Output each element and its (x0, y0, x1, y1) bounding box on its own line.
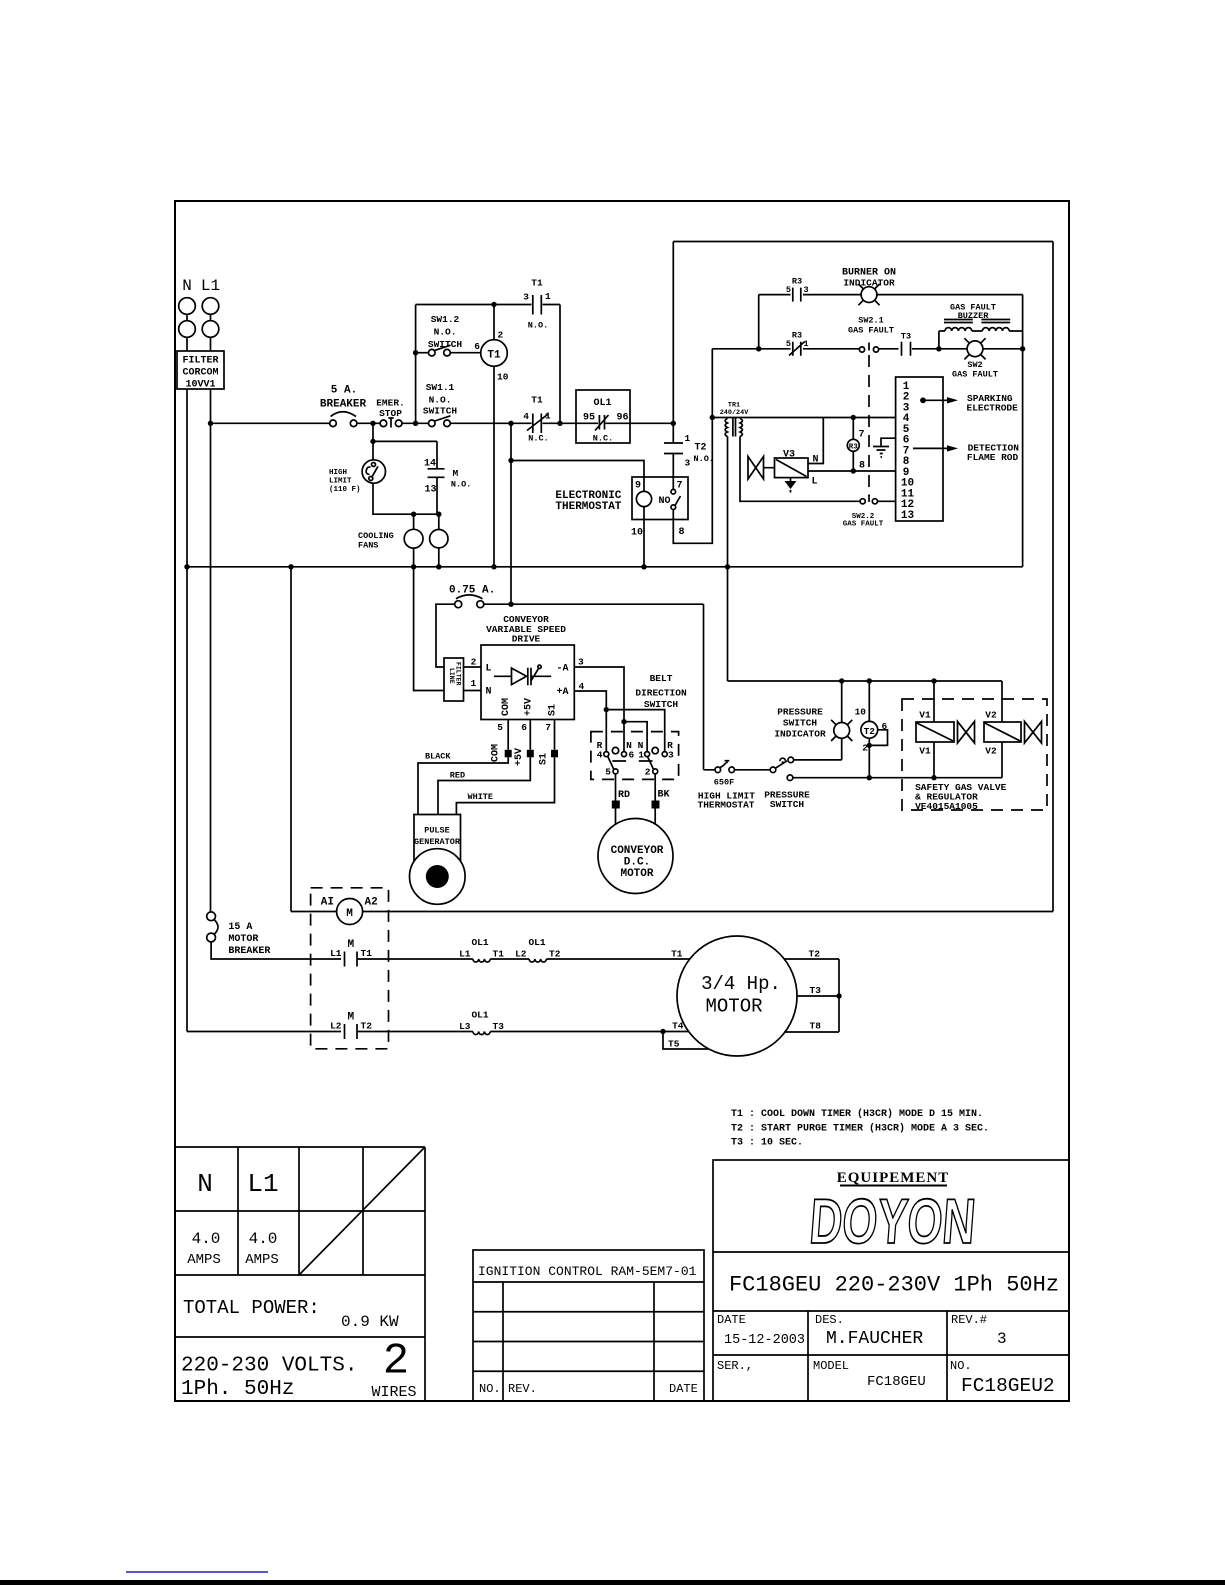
transformer TR1 240/24V (712, 402, 895, 437)
svg-text:WIRES: WIRES (371, 1384, 416, 1401)
svg-text:OL1: OL1 (471, 937, 488, 948)
svg-text:STOP: STOP (379, 408, 402, 419)
wire V3 L line to pin 9 (808, 470, 896, 472)
pulse generator (410, 815, 466, 905)
svg-text:T4: T4 (672, 1021, 684, 1032)
svg-text:T1 : COOL DOWN TIMER (H3CR) MO: T1 : COOL DOWN TIMER (H3CR) MODE D 15 MI… (731, 1108, 983, 1120)
switch SW1.2 N.O. (428, 314, 463, 356)
svg-text:THERMOSTAT: THERMOSTAT (555, 501, 621, 513)
svg-text:BK: BK (658, 790, 670, 801)
svg-text:10: 10 (631, 528, 643, 539)
wire N bus to motor rung 2 (186, 567, 188, 1032)
svg-text:5: 5 (605, 767, 611, 778)
svg-text:AI: AI (321, 897, 334, 909)
svg-text:L: L (486, 664, 492, 675)
wire heater to motor T4 (490, 1031, 689, 1033)
connector RD (612, 790, 630, 809)
svg-text:4.0: 4.0 (192, 1230, 221, 1248)
svg-text:0.75 A.: 0.75 A. (449, 585, 495, 597)
junction +A cross (604, 707, 609, 712)
svg-text:D.C.: D.C. (624, 856, 650, 868)
svg-text:T8: T8 (810, 1021, 822, 1032)
wire T2 to thermostat pin7 (672, 454, 674, 478)
wire enclosure top feed (673, 241, 1053, 243)
svg-text:1: 1 (545, 411, 551, 422)
wire COM black (418, 720, 508, 815)
svg-text:L1: L1 (247, 1169, 278, 1199)
wire burner-on line (759, 294, 1023, 296)
svg-text:L2: L2 (515, 949, 527, 960)
junction R3 bottom (851, 468, 856, 473)
svg-text:6: 6 (521, 722, 527, 733)
svg-text:3: 3 (668, 750, 674, 761)
wire rung2 N to contact (187, 1031, 341, 1033)
svg-text:SW1.2: SW1.2 (431, 314, 460, 325)
junction fan line right (436, 512, 441, 517)
svg-text:5: 5 (786, 339, 791, 349)
svg-text:10VV1: 10VV1 (185, 380, 215, 391)
wire filter to drive pin2 (464, 666, 482, 668)
svg-text:GAS FAULT: GAS FAULT (952, 370, 998, 380)
title block frame (713, 1160, 1069, 1401)
svg-text:EQUIPEMENT: EQUIPEMENT (837, 1170, 950, 1186)
conveyor DC motor (598, 819, 673, 894)
timer notes (731, 1108, 989, 1149)
svg-text:3: 3 (804, 285, 809, 295)
linkage dashed SW2.1-SW2.2 (868, 355, 870, 496)
svg-text:WHITE: WHITE (468, 792, 494, 802)
junction T2 at top rail (867, 678, 872, 683)
svg-text:14: 14 (424, 459, 436, 470)
svg-text:SWITCH: SWITCH (423, 406, 458, 417)
wire breaker to rung1 (211, 942, 341, 959)
junction rung to enclosure feed (671, 421, 676, 426)
wire motor T2 (784, 958, 839, 960)
svg-text:N: N (486, 687, 492, 698)
detection flame rod lead (913, 443, 1019, 464)
amps table grid (175, 1147, 425, 1401)
svg-text:FANS: FANS (358, 541, 378, 551)
svg-text:T3: T3 (493, 1021, 505, 1032)
svg-text:T1: T1 (531, 395, 543, 406)
buzzer gas fault (939, 303, 1023, 349)
wire T1 contact drop to rung (559, 305, 561, 424)
wire branch to thermostat pin9 (511, 461, 644, 478)
motor 3/4 Hp (677, 936, 797, 1056)
relay coil T1 (481, 340, 508, 367)
wire heater to motor T1 (546, 958, 689, 960)
junction riser at rung (508, 421, 513, 426)
svg-text:T3 : 10 SEC.: T3 : 10 SEC. (731, 1138, 803, 1149)
SCR symbol (494, 665, 551, 685)
svg-text:L1: L1 (330, 948, 342, 959)
svg-text:DES.: DES. (815, 1313, 844, 1327)
contact T1 3-1 N.O. (523, 278, 560, 331)
logo DOYON (807, 1185, 978, 1256)
svg-text:T2: T2 (809, 949, 821, 960)
svg-text:10: 10 (497, 372, 509, 383)
svg-text:OL1: OL1 (471, 1010, 488, 1021)
svg-text:+5V: +5V (514, 748, 525, 766)
svg-text:T3: T3 (901, 332, 911, 342)
wire SW1.2 to T1 coil pin 6 (450, 352, 480, 354)
wire high limit to fan line (373, 483, 439, 514)
solenoid valve V1 (916, 681, 975, 778)
terminal L1 (202, 298, 219, 338)
motor cooling fan 1 (404, 514, 423, 567)
svg-text:220-230 VOLTS.: 220-230 VOLTS. (181, 1355, 357, 1378)
junction bus M coil (288, 564, 293, 569)
svg-text:9: 9 (635, 481, 641, 492)
svg-text:13: 13 (424, 485, 436, 496)
svg-text:PULSE: PULSE (424, 826, 450, 836)
svg-text:SWITCH: SWITCH (770, 799, 805, 810)
wire between heaters (490, 958, 529, 960)
svg-text:R3: R3 (849, 443, 859, 451)
junction SW1.2 branch (413, 421, 418, 426)
svg-text:OL1: OL1 (593, 398, 611, 409)
wire -A to belt switch (574, 667, 647, 752)
belt direction switch label (635, 673, 687, 710)
svg-text:2: 2 (645, 767, 651, 778)
terminal N (179, 298, 196, 338)
svg-text:TOTAL POWER:: TOTAL POWER: (183, 1297, 320, 1319)
svg-text:6: 6 (882, 721, 888, 732)
svg-text:REV.: REV. (508, 1382, 537, 1396)
wire high limit branch top (373, 423, 437, 460)
svg-text:5: 5 (786, 285, 791, 295)
svg-text:2: 2 (498, 330, 504, 341)
junction fuse line riser (508, 602, 513, 607)
svg-text:T3: T3 (810, 985, 822, 996)
ignition control table (473, 1250, 704, 1401)
wire R3 gas-fault line (712, 348, 1022, 350)
junction L1 at rung (208, 421, 213, 426)
svg-text:BREAKER: BREAKER (320, 398, 367, 410)
svg-text:SWITCH: SWITCH (644, 699, 679, 710)
wire breaker to emer stop (357, 422, 380, 424)
valve symbol at V3 (748, 457, 775, 480)
svg-text:T1: T1 (487, 350, 501, 362)
svg-text:T1: T1 (361, 948, 373, 959)
svg-text:R3: R3 (792, 331, 802, 341)
svg-text:M: M (453, 468, 459, 479)
wire emer stop to SW1.1 (402, 422, 429, 424)
svg-text:V2: V2 (985, 746, 997, 757)
wire T1 coil bottom to neutral bus (493, 366, 495, 567)
svg-text:LINE: LINE (448, 668, 455, 684)
wire TR1 primary return (727, 437, 729, 682)
wire SW1.2 riser (415, 305, 417, 424)
switch SW2.1 gas fault (848, 316, 894, 353)
svg-text:96: 96 (617, 413, 629, 424)
junction buzzer at R3 line (936, 346, 941, 351)
svg-text:R3: R3 (792, 277, 802, 287)
svg-text:MODEL: MODEL (813, 1359, 849, 1373)
contact M 14-13 N.O. (424, 441, 471, 514)
junction -A cross (621, 719, 626, 724)
svg-text:RD: RD (618, 790, 630, 801)
svg-text:V2: V2 (985, 710, 997, 721)
svg-text:3: 3 (523, 292, 529, 303)
wire 650F to pressure switch (735, 769, 771, 771)
svg-text:SWITCH: SWITCH (783, 718, 818, 729)
svg-text:3: 3 (997, 1330, 1007, 1348)
svg-text:VE4015A1005: VE4015A1005 (915, 801, 978, 812)
junction right rail at R3 line (1020, 346, 1025, 351)
switch pressure (764, 757, 810, 810)
electronic thermostat (555, 477, 688, 539)
svg-text:V1: V1 (919, 710, 931, 721)
svg-text:DIRECTION: DIRECTION (635, 688, 687, 699)
svg-text:N.O.: N.O. (694, 454, 714, 464)
junction T4-T5 (660, 1029, 665, 1034)
svg-text:95: 95 (583, 413, 595, 424)
sparking electrode lead (920, 393, 1018, 414)
wire T2-T3-T8 tie (838, 959, 840, 1032)
junction bus N (184, 564, 189, 569)
svg-text:2: 2 (471, 657, 477, 668)
svg-text:3: 3 (685, 458, 691, 469)
wire burner-on branch riser (758, 295, 760, 349)
junction riser thermostat branch (508, 458, 513, 463)
svg-text:3/4 Hp.: 3/4 Hp. (701, 973, 781, 995)
wire RD to motor (615, 774, 617, 825)
junction pin10 bus (641, 564, 646, 569)
svg-text:MOTOR: MOTOR (228, 934, 258, 945)
overload OL1 95-96 N.C. (560, 390, 630, 444)
svg-text:1: 1 (545, 291, 551, 302)
filter FL1 CORCOM 10VV1 (177, 351, 224, 391)
overload heater OL1 L1-T1 (459, 937, 504, 962)
wire +5V red (438, 720, 530, 815)
svg-text:N.O.: N.O. (528, 321, 548, 331)
svg-text:15-12-2003: 15-12-2003 (724, 1333, 805, 1348)
connector +5V (514, 748, 534, 766)
svg-text:13: 13 (901, 510, 915, 522)
revision field (951, 1313, 1007, 1348)
wire rung2 to OL1 (357, 1031, 473, 1033)
wire top rung (416, 304, 532, 306)
svg-text:FLAME ROD: FLAME ROD (967, 452, 1019, 463)
svg-text:8: 8 (859, 461, 865, 472)
contactor M dashed box (311, 888, 389, 1049)
svg-text:NO.: NO. (950, 1359, 972, 1373)
svg-text:REV.#: REV.# (951, 1313, 987, 1327)
svg-text:3: 3 (578, 657, 584, 668)
wire motor T8 (784, 1031, 839, 1033)
svg-text:SER.,: SER., (717, 1359, 753, 1373)
ground at pin 6 (873, 438, 896, 457)
svg-text:INDICATOR: INDICATOR (843, 278, 895, 289)
wire +A to belt switch (574, 691, 664, 752)
svg-text:M: M (346, 908, 353, 920)
junction SW1.2 line (413, 350, 418, 355)
svg-text:LIMIT: LIMIT (329, 477, 352, 485)
svg-text:T2: T2 (549, 949, 561, 960)
connector COM (491, 744, 512, 762)
junction bus fan2 (436, 564, 441, 569)
svg-text:N: N (813, 455, 819, 466)
svg-text:T1: T1 (493, 949, 505, 960)
svg-text:BELT: BELT (650, 673, 673, 684)
overload heater OL1 L3-T3 (459, 1010, 504, 1035)
junction bus fan1 (411, 564, 416, 569)
svg-text:A2: A2 (365, 897, 378, 909)
svg-text:S1: S1 (539, 753, 550, 765)
thermostat 650F high limit (698, 761, 756, 811)
svg-text:+A: +A (557, 687, 569, 698)
wire thermostat pin10 to bus (643, 520, 645, 567)
svg-text:AMPS: AMPS (187, 1252, 221, 1268)
lamp pressure switch indicator (774, 681, 852, 760)
svg-text:COOLING: COOLING (358, 531, 394, 541)
svg-text:MOTOR: MOTOR (620, 868, 653, 880)
svg-text:N.O.: N.O. (451, 480, 471, 490)
svg-text:1Ph. 50Hz: 1Ph. 50Hz (181, 1378, 294, 1401)
svg-text:0.9 KW: 0.9 KW (341, 1313, 399, 1331)
gas valve assembly dashed box (902, 699, 1047, 810)
svg-text:BLACK: BLACK (425, 752, 451, 762)
wire L1 riser to motor breaker (210, 423, 212, 912)
junction high limit branch (370, 421, 375, 426)
svg-text:7: 7 (545, 722, 551, 733)
svg-text:1: 1 (638, 750, 644, 761)
junction TR1 return at bus (725, 564, 730, 569)
pushbutton emergency stop (376, 398, 405, 428)
svg-text:6: 6 (474, 341, 480, 352)
junction coil at top rung (491, 302, 496, 307)
svg-text:4: 4 (523, 411, 529, 422)
lamp burner on indicator (842, 268, 896, 306)
svg-text:AMPS: AMPS (245, 1252, 279, 1268)
wire filter to drive pin1 (464, 690, 482, 692)
svg-text:M: M (347, 939, 354, 951)
svg-text:COM: COM (491, 744, 502, 762)
wire pressure switch NO to indicator (794, 759, 842, 761)
wire enclosure bottom return (363, 911, 1054, 913)
svg-text:RED: RED (450, 771, 465, 781)
lamp SW2 gas fault (952, 338, 998, 379)
svg-text:MOTOR: MOTOR (705, 996, 762, 1018)
equipement heading (837, 1170, 950, 1186)
junction tie at T3 (836, 993, 841, 998)
relay coil R3 (847, 418, 865, 472)
connector S1 (539, 750, 559, 765)
svg-text:7: 7 (677, 481, 683, 492)
svg-text:5 A.: 5 A. (331, 385, 357, 397)
wire fuse line to 650F thermostat (703, 604, 705, 770)
timer T2 (855, 681, 888, 778)
conveyor variable speed drive U1 (481, 614, 574, 720)
svg-text:CONVEYOR: CONVEYOR (611, 845, 664, 857)
svg-text:SWITCH: SWITCH (428, 339, 463, 350)
footer black bar (0, 1580, 1225, 1585)
gas valve label (915, 782, 1007, 812)
svg-text:CORCOM: CORCOM (182, 368, 218, 379)
svg-text:N: N (197, 1169, 213, 1199)
wire T1 coil top to top rung (493, 305, 495, 340)
svg-text:DRIVE: DRIVE (512, 634, 541, 645)
wire V3 N lead (808, 418, 823, 464)
svg-text:THERMOSTAT: THERMOSTAT (698, 799, 755, 810)
wire SW1.1 to T1 contact (450, 422, 531, 424)
svg-text:IGNITION CONTROL RAM-5EM7-01: IGNITION CONTROL RAM-5EM7-01 (478, 1264, 697, 1279)
footer link line (126, 1571, 268, 1573)
svg-text:L: L (812, 477, 818, 488)
svg-text:GAS FAULT: GAS FAULT (843, 521, 884, 529)
belt direction switch (591, 732, 679, 780)
junction bus T1 coil (491, 564, 496, 569)
svg-text:1: 1 (685, 433, 691, 444)
svg-text:SW1.1: SW1.1 (426, 382, 455, 393)
svg-text:DATE: DATE (717, 1313, 746, 1327)
svg-text:M.FAUCHER: M.FAUCHER (826, 1329, 923, 1349)
wire rung L1 to breaker (211, 422, 330, 424)
wire T5 stub (663, 1032, 708, 1050)
svg-text:T2: T2 (695, 443, 707, 454)
svg-text:GAS FAULT: GAS FAULT (848, 326, 894, 336)
junction at branch tee (370, 439, 375, 444)
breaker CB1 5A (320, 385, 367, 427)
svg-text:10: 10 (855, 707, 867, 718)
contact R3 5-3 N.O. (786, 277, 809, 302)
svg-text:N.C.: N.C. (528, 434, 548, 444)
svg-text:4.0: 4.0 (249, 1230, 278, 1248)
svg-text:SW2: SW2 (967, 360, 982, 370)
svg-text:15 A: 15 A (228, 922, 252, 933)
svg-text:N.O.: N.O. (429, 395, 452, 406)
junction TR1 line left (710, 415, 715, 420)
svg-text:GENERATOR: GENERATOR (414, 837, 461, 847)
svg-text:240/24V: 240/24V (720, 409, 749, 417)
contact T2 1-3 N.O. (664, 433, 714, 469)
svg-text:ELECTRODE: ELECTRODE (967, 403, 1019, 414)
wire M coil drop (290, 567, 292, 912)
date field (717, 1313, 805, 1348)
motor cooling fan 2 (430, 514, 448, 567)
svg-text:(110 F): (110 F) (329, 486, 361, 494)
svg-text:8: 8 (679, 527, 685, 538)
wire N terminals to filter (187, 314, 211, 351)
wire riser to SW1.2 (416, 352, 429, 354)
svg-text:N.C.: N.C. (593, 434, 613, 444)
svg-text:T2: T2 (864, 726, 876, 737)
thermostat high limit 110F (329, 460, 385, 494)
cooling fans label (358, 531, 394, 551)
svg-text:NO.: NO. (479, 1382, 501, 1396)
svg-text:HIGH: HIGH (329, 469, 347, 477)
svg-text:FILTER: FILTER (182, 356, 218, 367)
contact M L2-T2 (330, 1012, 372, 1040)
svg-text:650F: 650F (714, 778, 734, 788)
varistor V3 (775, 450, 819, 488)
junction R3 top (851, 415, 856, 420)
border frame (175, 201, 1069, 1401)
junction T2 at lower line (867, 775, 872, 780)
svg-text:T1: T1 (531, 278, 543, 289)
wire BK to motor (654, 774, 656, 825)
wire 24V top rail (728, 680, 1003, 682)
svg-text:L1: L1 (459, 949, 471, 960)
ignition control module (896, 377, 943, 522)
svg-text:+5V: +5V (523, 698, 534, 716)
junction V1 at top rail (931, 678, 936, 683)
svg-text:T5: T5 (668, 1039, 680, 1050)
designer field (815, 1313, 923, 1349)
junction fan line left (411, 512, 416, 517)
contactor coil M (291, 897, 378, 925)
